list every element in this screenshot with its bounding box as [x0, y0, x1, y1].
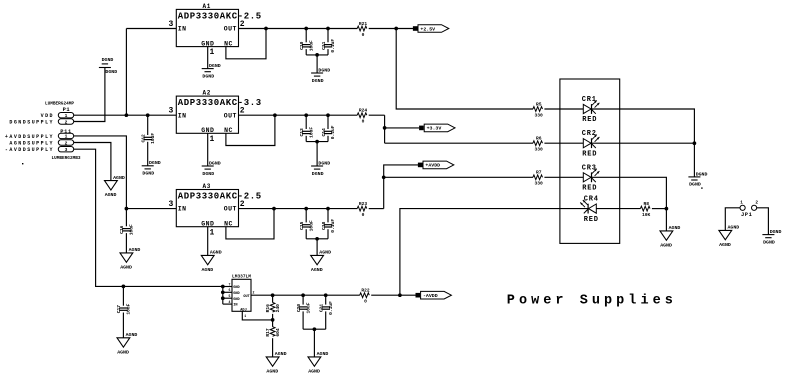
svg-text:RED: RED	[582, 116, 597, 124]
svg-text:2: 2	[240, 200, 245, 209]
resistor R6 330	[533, 136, 543, 153]
LED CR2 RED	[582, 130, 600, 158]
svg-text:2: 2	[65, 119, 68, 125]
svg-text:AGND: AGND	[308, 368, 320, 374]
svg-text:AGND: AGND	[113, 175, 125, 181]
svg-text:DGND: DGND	[312, 78, 324, 84]
node VDD / A1 feed	[125, 113, 129, 117]
svg-text:R8: R8	[643, 201, 649, 207]
svg-text:DGND: DGND	[102, 57, 114, 63]
wire R23 to corner	[369, 208, 384, 210]
svg-text:GND: GND	[233, 298, 240, 302]
wire LM337 pin stub	[223, 297, 232, 299]
node CR3 branch	[382, 175, 386, 179]
wire LM337 pin stub	[223, 303, 232, 305]
resistor R23 0 series row3	[357, 201, 367, 218]
wire to +3.3V flag	[385, 127, 420, 129]
capacitor C16 10uF A3 input	[119, 224, 134, 235]
wire caps common to ground	[306, 238, 328, 240]
svg-text:R16: R16	[265, 304, 271, 313]
node LM337 GND pin 3	[221, 296, 225, 300]
svg-text:0: 0	[362, 32, 365, 38]
node +2.5V branch	[394, 27, 398, 31]
svg-text:CR1: CR1	[582, 96, 597, 104]
wire A3 GND stub	[207, 227, 209, 256]
svg-text:RED: RED	[582, 185, 597, 193]
wire CR4 anode to R8	[596, 208, 640, 210]
wire VDD feed vertical to A1	[125, 29, 127, 116]
ground AGND at C17	[117, 332, 137, 355]
svg-text:NC: NC	[224, 221, 233, 228]
svg-text:RED: RED	[584, 216, 599, 224]
ground AGND at JP1 pin1	[719, 225, 739, 248]
node CR3/CR4 ground	[665, 207, 669, 211]
svg-text:Power Supplies: Power Supplies	[507, 294, 677, 309]
svg-text:AGND: AGND	[129, 247, 141, 253]
wire CR1 cathode	[591, 109, 694, 177]
resistor R17 604 feedback bottom	[272, 320, 274, 327]
wire A2 NC loop	[226, 115, 275, 145]
svg-text:240: 240	[275, 304, 281, 313]
ground DGND at A1 GND	[202, 63, 221, 79]
wire R7 to CR3	[544, 176, 583, 178]
svg-text:+2.5V: +2.5V	[420, 26, 435, 32]
connector P1 pin 2 DGNDSUPPLY	[58, 119, 73, 126]
svg-text:0: 0	[362, 119, 365, 125]
wire row2 corner down	[384, 115, 386, 143]
svg-text:ADP3330AKC-2.5: ADP3330AKC-2.5	[178, 11, 262, 21]
svg-text:GND: GND	[201, 40, 214, 47]
svg-text:10uF: 10uF	[305, 302, 311, 313]
node LM output cap C20	[301, 293, 305, 297]
svg-text:10uF: 10uF	[308, 220, 314, 231]
ground DGND inverted at P1	[99, 57, 117, 75]
node A2 output cap C14	[326, 113, 330, 117]
wire +2.5V down to CR1	[396, 29, 533, 110]
ground AGND at A3 GND	[201, 250, 221, 273]
svg-text:AGND: AGND	[275, 351, 287, 357]
wire LM337 pin stub	[223, 286, 232, 288]
svg-text:10uF: 10uF	[308, 40, 314, 51]
wire A2 GND stub	[207, 133, 209, 166]
svg-text:AGND: AGND	[660, 242, 672, 248]
svg-text:DGND: DGND	[689, 182, 701, 188]
power flag +AVDD	[418, 161, 454, 169]
svg-text:DGND: DGND	[312, 171, 324, 177]
wire A1 OUT	[239, 28, 358, 30]
connector P11 pin 3 -AVDDSUPPLY	[58, 147, 73, 154]
node LM337 GND pin 2	[221, 290, 225, 294]
svg-text:AGNDSUPPLY: AGNDSUPPLY	[9, 141, 54, 147]
svg-text:DGND: DGND	[209, 160, 221, 166]
node A3 OUT / NC junction	[272, 207, 276, 211]
svg-text:AGND: AGND	[719, 242, 731, 248]
node caps ground stem	[313, 327, 317, 331]
resistor R5 330	[533, 101, 543, 118]
wire JP1 pin2 to DGND	[757, 208, 769, 235]
svg-text:AGND: AGND	[311, 267, 323, 273]
connector P11 pin 2 AGNDSUPPLY	[58, 140, 73, 147]
svg-text:1: 1	[210, 135, 215, 144]
node A2 OUT / NC junction	[273, 113, 277, 117]
node -AVDD input / C17	[122, 285, 126, 289]
svg-text:DGNDSUPPLY: DGNDSUPPLY	[9, 120, 54, 126]
svg-text:0.1uF: 0.1uF	[330, 125, 336, 139]
node A1 output cap C10	[304, 27, 308, 31]
svg-text:R24: R24	[359, 108, 368, 114]
svg-text:IN: IN	[233, 304, 237, 308]
svg-text:+AVDD: +AVDD	[425, 163, 440, 169]
LED CR4 RED	[580, 196, 599, 224]
svg-text:C16: C16	[119, 225, 125, 234]
node caps ground stem	[315, 237, 319, 241]
wire A3 input cap stem	[125, 209, 127, 227]
svg-text:LUMBERG24MP: LUMBERG24MP	[45, 102, 74, 107]
svg-text:2: 2	[65, 140, 68, 146]
svg-text:6: 6	[229, 288, 231, 292]
svg-text:DGND: DGND	[209, 63, 221, 69]
svg-text:AGND: AGND	[210, 250, 222, 256]
svg-text:LM337LM: LM337LM	[232, 274, 251, 280]
wire to AGND	[665, 209, 667, 231]
svg-text:GND: GND	[233, 286, 240, 290]
svg-text:2: 2	[240, 20, 245, 29]
svg-text:0.1uF: 0.1uF	[330, 39, 336, 53]
power flag -AVDD	[416, 291, 452, 299]
svg-text:AGND: AGND	[117, 349, 129, 355]
node A3 output cap C18	[326, 207, 330, 211]
svg-text:-AVDDSUPPLY: -AVDDSUPPLY	[5, 147, 54, 153]
capacitor C21 0.1uF	[325, 295, 327, 304]
svg-text:R17: R17	[265, 328, 271, 337]
svg-text:1: 1	[740, 200, 743, 205]
LED CR3 RED	[582, 164, 600, 192]
svg-text:DGND: DGND	[318, 67, 330, 73]
wire AGNDSUPPLY to AGND	[74, 143, 111, 181]
wire to +2.5V flag	[396, 28, 413, 30]
svg-text:10uF: 10uF	[150, 133, 156, 144]
svg-text:0: 0	[364, 299, 367, 305]
svg-text:1: 1	[244, 314, 246, 318]
resistor R16 240 feedback top	[272, 295, 274, 302]
jumper JP1	[740, 200, 758, 218]
svg-text:ADP3330AKC-2.5: ADP3330AKC-2.5	[178, 192, 262, 202]
wire A3 NC loop	[226, 209, 274, 239]
svg-text:ADP3330AKC-3.3: ADP3330AKC-3.3	[178, 98, 262, 108]
ground AGND at R17	[266, 351, 286, 374]
voltage regulator A2	[168, 90, 261, 144]
wire row3 corner up to +AVDD	[384, 165, 418, 209]
resistor R7 330	[533, 170, 543, 187]
wire caps common to ground	[306, 54, 328, 56]
svg-text:DGND: DGND	[142, 171, 154, 177]
wire LM337 ADJ	[242, 311, 272, 320]
node LM337 GND pin 1	[221, 285, 225, 289]
svg-text:NC: NC	[224, 40, 233, 47]
svg-text:C10: C10	[299, 41, 305, 50]
node CR2 / ground bus	[693, 141, 697, 145]
ground DGND at A2 GND	[202, 160, 221, 176]
svg-text:C13: C13	[299, 128, 305, 137]
wire A2 OUT	[239, 114, 358, 116]
wire A3 IN	[126, 208, 176, 210]
svg-text:3: 3	[65, 147, 68, 153]
node caps ground stem	[315, 140, 319, 144]
resistor R24 0 series row2	[357, 108, 367, 125]
svg-text:2: 2	[755, 200, 758, 205]
svg-text:C17: C17	[116, 305, 122, 314]
node A2 output cap C13	[304, 113, 308, 117]
voltage regulator A4 LM337LM	[229, 274, 255, 318]
svg-text:DGND: DGND	[105, 69, 117, 75]
svg-text:7: 7	[229, 282, 231, 286]
connector P11 pin 1 +AVDDSUPPLY	[58, 133, 73, 140]
capacitor C11 0.1uF	[327, 29, 329, 43]
wire to -AVDD flag	[400, 294, 416, 296]
wire LM337 pin bus	[222, 286, 224, 304]
wire CR3 feed	[384, 176, 533, 178]
voltage regulator A3	[168, 183, 261, 237]
ground DGND at JP1 pin2	[762, 229, 781, 245]
svg-text:2: 2	[240, 107, 245, 116]
node +3.3V branch	[383, 126, 387, 130]
svg-text:1: 1	[210, 48, 215, 57]
svg-text:330: 330	[535, 181, 544, 187]
svg-text:GND: GND	[201, 221, 214, 228]
wire R22 to node	[371, 294, 400, 296]
svg-text:OUT: OUT	[224, 206, 237, 213]
svg-text:3: 3	[168, 200, 173, 209]
svg-text:A1: A1	[203, 3, 212, 10]
svg-text:CR2: CR2	[582, 130, 597, 138]
resistor R22 0 series row4	[360, 288, 370, 305]
node caps ground stem	[315, 53, 319, 57]
wire LM337 pin stub	[223, 291, 232, 293]
svg-text:DGND: DGND	[202, 171, 214, 177]
svg-text:+AVDDSUPPLY: +AVDDSUPPLY	[5, 134, 54, 140]
capacitor C10 10uF	[305, 29, 307, 43]
svg-text:GND: GND	[201, 127, 214, 134]
svg-text:R7: R7	[536, 170, 542, 176]
connector P1 pin 1 VDD	[58, 113, 73, 120]
node A1 OUT / NC junction	[264, 27, 268, 31]
wire A1 IN	[126, 28, 176, 30]
resistor R8 10K	[640, 201, 650, 218]
wire R6 to CR2	[544, 142, 583, 144]
svg-text:AGND: AGND	[126, 332, 138, 338]
svg-text:10uF: 10uF	[308, 127, 314, 138]
svg-text:DGND: DGND	[149, 160, 161, 166]
capacitor C18 0.1uF	[327, 209, 329, 223]
wire +AVDDSUPPLY to A3 IN	[74, 136, 127, 209]
svg-text:R22: R22	[361, 288, 370, 294]
svg-text:OUT: OUT	[243, 295, 250, 299]
ground DGND at A1 output caps	[311, 67, 330, 83]
svg-text:NC: NC	[224, 127, 233, 134]
svg-text:DGND: DGND	[318, 160, 330, 166]
svg-text:DGND: DGND	[202, 73, 214, 79]
svg-text:CR3: CR3	[582, 164, 597, 172]
svg-text:IN: IN	[178, 26, 187, 33]
svg-text:R5: R5	[536, 101, 542, 107]
wire caps common to ground	[303, 328, 326, 330]
capacitor C17 10uF LM337 input	[122, 286, 124, 305]
node ADJ / feedback junction	[271, 318, 275, 322]
voltage regulator A1	[168, 3, 261, 57]
svg-text:A3: A3	[203, 183, 212, 190]
capacitor C15 10uF	[305, 209, 307, 223]
LED block border	[560, 79, 620, 243]
power flag +2.5V	[413, 25, 449, 33]
svg-text:GND: GND	[233, 292, 240, 296]
capacitor C13 10uF	[305, 115, 307, 129]
svg-text:0: 0	[362, 212, 365, 218]
svg-text:AGND: AGND	[669, 225, 681, 231]
power flag +3.3V	[419, 124, 455, 132]
svg-text:AGND: AGND	[317, 351, 329, 357]
svg-text:10uF: 10uF	[129, 224, 135, 235]
node CR4 feed branch	[398, 293, 402, 297]
svg-text:R23: R23	[359, 201, 368, 207]
svg-text:2: 2	[253, 291, 255, 295]
svg-text:DGND: DGND	[696, 171, 708, 177]
svg-text:4: 4	[229, 300, 231, 304]
node LM output cap C21	[324, 293, 328, 297]
svg-text:0.1uF: 0.1uF	[330, 219, 336, 233]
svg-text:DGND: DGND	[763, 239, 775, 245]
svg-text:C18: C18	[321, 221, 327, 230]
LED CR1 RED	[582, 96, 600, 124]
wire CR3 cathode	[592, 177, 667, 208]
wire caps common to ground	[306, 141, 328, 143]
svg-text:AGND: AGND	[728, 225, 740, 231]
node VDD / C12	[146, 113, 150, 117]
svg-text:-AVDD: -AVDD	[423, 293, 438, 299]
svg-text:JP1: JP1	[741, 212, 752, 218]
wire -AVDDSUPPLY down to LM337	[74, 149, 223, 286]
svg-text:R6: R6	[536, 136, 542, 142]
svg-text:AGND: AGND	[120, 264, 132, 270]
capacitor C20 10uF	[302, 295, 304, 304]
svg-text:C11: C11	[321, 41, 327, 50]
node A3 IN / C16 junction	[125, 207, 129, 211]
svg-text:C15: C15	[299, 221, 305, 230]
wire CR4 feed into block	[533, 208, 588, 210]
svg-text:OUT: OUT	[224, 26, 237, 33]
wire LM337 OUT	[251, 294, 360, 296]
svg-text:+3.3V: +3.3V	[427, 126, 442, 132]
node A3 output cap C15	[304, 207, 308, 211]
stray mark	[701, 187, 702, 188]
wire CR2 feed	[385, 142, 533, 144]
wire R8 to ground node	[652, 208, 667, 210]
svg-text:AGND: AGND	[266, 368, 278, 374]
svg-text:C21: C21	[319, 304, 325, 313]
svg-text:330: 330	[535, 147, 544, 153]
svg-text:AGND: AGND	[202, 267, 214, 273]
node feedback R16	[271, 293, 275, 297]
svg-text:VDD: VDD	[41, 113, 54, 119]
ground AGND at LM output caps	[308, 351, 328, 374]
svg-text:1: 1	[65, 113, 68, 119]
resistor R21 0 series row1	[357, 21, 367, 38]
wire CR2 cathode	[592, 142, 695, 144]
svg-text:5: 5	[229, 294, 231, 298]
svg-text:C12: C12	[141, 134, 147, 143]
wire R24 to corner	[369, 114, 385, 116]
wire A3 OUT	[239, 208, 358, 210]
svg-text:CR4: CR4	[584, 196, 599, 204]
wire CR4 feed	[400, 209, 533, 296]
svg-text:3: 3	[168, 107, 173, 116]
svg-text:A2: A2	[203, 90, 212, 97]
ground DGND at A2 output caps	[311, 160, 330, 176]
wire A1 NC loop	[226, 29, 266, 59]
svg-text:DGND: DGND	[770, 229, 782, 235]
svg-text:10uF: 10uF	[126, 303, 132, 314]
capacitor C14 0.1uF	[327, 115, 329, 129]
ground AGND at P11 pin2	[105, 175, 125, 198]
svg-text:604: 604	[275, 328, 281, 337]
wire VDD row P1 to A2 IN	[74, 114, 177, 116]
wire R5 to CR1	[544, 108, 583, 110]
svg-text:OUT: OUT	[224, 112, 237, 119]
svg-text:IN: IN	[178, 112, 187, 119]
node A1 output cap C11	[326, 27, 330, 31]
wire A1 GND stub	[207, 47, 209, 69]
svg-text:R21: R21	[359, 21, 368, 27]
svg-text:ADJ: ADJ	[240, 308, 246, 312]
svg-text:LUMBERG2MB3: LUMBERG2MB3	[52, 156, 81, 161]
capacitor C12 10uF VDD bypass	[147, 115, 149, 135]
svg-text:RED: RED	[582, 150, 597, 158]
svg-text:10K: 10K	[642, 212, 651, 218]
svg-text:330: 330	[535, 112, 544, 118]
ground AGND at C16	[120, 247, 140, 270]
wire JP1 pin1 to AGND	[725, 208, 740, 231]
wire R21 to node	[369, 28, 397, 30]
svg-text:1: 1	[65, 134, 68, 140]
ground DGND at C12	[142, 160, 161, 176]
wire P1 pin2 to DGND	[74, 68, 105, 122]
svg-text:C14: C14	[321, 128, 327, 137]
svg-text:0.1uF: 0.1uF	[328, 301, 334, 315]
svg-text:IN: IN	[178, 206, 187, 213]
svg-text:3: 3	[168, 20, 173, 29]
svg-text:AGND: AGND	[319, 250, 331, 256]
stray mark	[22, 163, 23, 164]
svg-text:1: 1	[210, 228, 215, 237]
ground AGND at A3 output caps	[311, 250, 331, 273]
svg-text:C20: C20	[296, 304, 302, 313]
svg-text:AGND: AGND	[105, 192, 117, 198]
ground DGND at LED bus	[688, 171, 707, 187]
ground AGND at CR4	[660, 225, 680, 248]
